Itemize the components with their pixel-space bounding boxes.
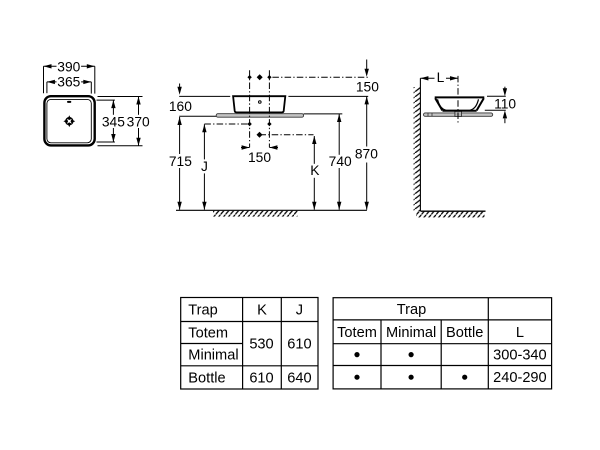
right table frame bbox=[333, 298, 551, 389]
bullet row4 col3 bbox=[462, 375, 467, 380]
dimension 740 bbox=[328, 114, 352, 210]
centerline right bbox=[268, 70, 270, 147]
svg-text:365: 365 bbox=[57, 74, 80, 89]
dimension J bbox=[199, 124, 209, 209]
wall line bbox=[419, 78, 421, 211]
right table column line 1 bbox=[380, 320, 382, 389]
svg-text:J: J bbox=[296, 303, 303, 319]
floor hatch bbox=[213, 211, 298, 217]
svg-text:Bottle: Bottle bbox=[188, 370, 225, 386]
dimension 150 top bbox=[356, 60, 379, 95]
mid diamond right bbox=[267, 122, 271, 126]
centerline left bbox=[249, 70, 251, 147]
dimension 110 bbox=[485, 87, 517, 124]
svg-text:390: 390 bbox=[57, 60, 80, 75]
svg-text:345: 345 bbox=[102, 115, 125, 130]
bullet row4 col2 bbox=[409, 375, 414, 380]
svg-text:610: 610 bbox=[249, 370, 273, 386]
side basin bowl bbox=[435, 97, 485, 110]
right table column line 3 bbox=[487, 298, 489, 389]
mid diamond left bbox=[247, 122, 251, 126]
dimension 365 bbox=[47, 74, 91, 93]
svg-text:715: 715 bbox=[169, 154, 192, 169]
dimension 160 bbox=[169, 84, 192, 115]
basin front outline bbox=[233, 96, 285, 112]
basin inner rim bbox=[47, 99, 91, 142]
overflow hole bbox=[67, 101, 71, 103]
left table column line 1 bbox=[242, 298, 244, 390]
svg-text:K: K bbox=[257, 303, 267, 319]
svg-text:Minimal: Minimal bbox=[188, 348, 238, 364]
faucet hole bbox=[259, 101, 262, 104]
svg-text:610: 610 bbox=[287, 337, 311, 353]
svg-text:740: 740 bbox=[329, 154, 352, 169]
svg-text:870: 870 bbox=[355, 147, 378, 162]
drain reference line J bbox=[204, 123, 250, 125]
dimension 390 bbox=[44, 60, 95, 94]
svg-text:Trap: Trap bbox=[397, 302, 426, 318]
dimension 370 bbox=[98, 97, 151, 146]
svg-text:L: L bbox=[516, 325, 524, 341]
floor line bbox=[420, 210, 485, 212]
svg-text:300-340: 300-340 bbox=[493, 347, 547, 363]
svg-text:150: 150 bbox=[248, 150, 271, 165]
svg-text:640: 640 bbox=[287, 370, 311, 386]
svg-text:K: K bbox=[310, 163, 320, 178]
side centerline bbox=[457, 76, 459, 123]
floor line bbox=[176, 209, 367, 211]
right table column line 2 bbox=[440, 320, 442, 389]
svg-text:530: 530 bbox=[249, 337, 273, 353]
svg-text:160: 160 bbox=[169, 99, 192, 114]
dimension 870 bbox=[355, 96, 379, 209]
supply reference line K bbox=[260, 134, 314, 136]
left table column line 2 bbox=[280, 298, 282, 390]
svg-text:370: 370 bbox=[127, 115, 150, 130]
top diamond center bbox=[257, 74, 263, 80]
countertop slab bbox=[216, 114, 303, 118]
top diamond left bbox=[247, 75, 251, 79]
left table row line 1 bbox=[181, 321, 318, 323]
basin top extension line right bbox=[288, 95, 368, 97]
dimension 345 bbox=[97, 100, 126, 142]
slab joint ticks bbox=[427, 113, 429, 116]
svg-text:110: 110 bbox=[494, 96, 516, 111]
top diamond right bbox=[267, 75, 271, 79]
side drain square bbox=[455, 111, 462, 116]
left table row line 3 bbox=[181, 365, 318, 367]
wall hatch bbox=[414, 87, 421, 211]
right table row line 2 bbox=[333, 343, 551, 345]
bullet row3 col2 bbox=[409, 352, 414, 357]
drain symbol bbox=[63, 115, 75, 127]
right table row line 3 bbox=[333, 365, 551, 367]
right table row line 1 bbox=[333, 319, 551, 321]
lower diamond center bbox=[257, 132, 263, 138]
svg-text:Minimal: Minimal bbox=[386, 325, 436, 341]
svg-text:240-290: 240-290 bbox=[493, 370, 547, 386]
svg-text:Totem: Totem bbox=[188, 325, 228, 341]
svg-text:J: J bbox=[201, 159, 208, 174]
svg-text:Trap: Trap bbox=[188, 303, 217, 319]
floor hatch bbox=[416, 212, 485, 218]
svg-text:Bottle: Bottle bbox=[446, 325, 483, 341]
top supply line bbox=[272, 76, 369, 78]
countertop bottom extension line left bbox=[179, 115, 216, 117]
svg-text:Totem: Totem bbox=[337, 325, 377, 341]
dimension K bbox=[309, 136, 320, 210]
left table frame bbox=[181, 298, 318, 390]
left table row line 2 (first column only) bbox=[181, 343, 243, 345]
side countertop slab bbox=[424, 113, 493, 116]
bullet row4 col1 bbox=[354, 375, 359, 380]
bullet row3 col1 bbox=[354, 352, 359, 357]
dimension L bbox=[420, 70, 458, 85]
svg-text:150: 150 bbox=[356, 80, 379, 95]
dimension 150 bottom bbox=[241, 145, 278, 165]
basin top extension line left bbox=[179, 95, 230, 97]
dimension 715 bbox=[169, 117, 193, 210]
countertop top extension line right bbox=[304, 113, 343, 115]
svg-text:L: L bbox=[437, 70, 445, 85]
basin outer square bbox=[44, 96, 94, 145]
